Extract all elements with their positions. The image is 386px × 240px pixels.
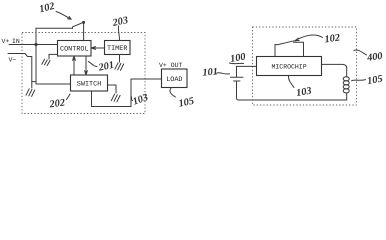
- battery short plate: [234, 80, 241, 82]
- battery bottom stem and bottom rail: [237, 82, 347, 100]
- svg-text:TIMER: TIMER: [107, 45, 127, 53]
- dashed enclosure left figure: [22, 33, 145, 114]
- op block CONTROL U-CTRL: [58, 41, 92, 57]
- svg-text:V−: V−: [9, 57, 17, 64]
- wire CONTROL-SWITCH left (arrow up): [73, 56, 75, 75]
- wire MICROCHIP right to coil: [322, 64, 347, 77]
- leader 203 to TIMER: [118, 26, 119, 41]
- svg-text:102: 102: [324, 32, 341, 45]
- wire V-: [8, 54, 36, 82]
- svg-text:101: 101: [202, 66, 218, 78]
- switch block SWITCH: [71, 75, 108, 91]
- svg-text:400: 400: [366, 51, 384, 64]
- svg-text:LOAD: LOAD: [166, 76, 182, 84]
- wire riser to switch 102: [36, 28, 73, 44]
- leader 202: [67, 94, 71, 100]
- svg-text:V+: V+: [2, 38, 10, 45]
- svg-text:202: 202: [48, 97, 66, 110]
- switch 102 contact dot: [82, 21, 85, 24]
- label 103 right: [288, 76, 294, 88]
- battery 100/101 long plate: [231, 76, 244, 78]
- label 201: [88, 62, 97, 67]
- svg-text:CONTROL: CONTROL: [60, 46, 89, 54]
- label 105 right: [352, 80, 366, 81]
- svg-text:MICROCHIP: MICROCHIP: [272, 64, 307, 71]
- switch 102 blade: [275, 41, 294, 45]
- microchip block MICROCHIP: [257, 57, 322, 76]
- switch 102 on chip: left post: [274, 44, 276, 56]
- svg-text:SWITCH: SWITCH: [77, 80, 101, 88]
- wire TIMER to CONTROL arrow: [92, 47, 105, 49]
- op block TIMER: [105, 41, 131, 55]
- leader arrow 102: [56, 12, 71, 20]
- wire switch to CONTROL top: [83, 23, 85, 41]
- svg-text:V+ OUT: V+ OUT: [159, 62, 183, 69]
- wire SWITCH output to LOAD: [92, 79, 162, 107]
- ground right of SWITCH: [111, 94, 120, 102]
- leader arrow 102 right: [296, 35, 323, 40]
- ground left of CONTROL: [49, 54, 58, 59]
- node junction dot V+: [34, 43, 37, 46]
- wire V+ down to SWITCH: [36, 45, 71, 85]
- label 400: [354, 50, 367, 55]
- label 105 left: [170, 88, 176, 97]
- ground below TIMER: [119, 55, 121, 63]
- wire CONTROL-SWITCH right (arrow down): [85, 56, 87, 75]
- wire V+ IN to CONTROL: [9, 44, 58, 46]
- label 103 left: [131, 96, 133, 101]
- wire SWITCH right to ground: [108, 85, 117, 93]
- dashed enclosure right figure: [253, 27, 357, 105]
- switch 102 blade: [73, 23, 84, 29]
- switch 102 right post and contact: [294, 42, 304, 56]
- coil antenna 105: [346, 93, 348, 100]
- load block LOAD: [162, 69, 188, 88]
- wire MICROCHIP left to battery: [237, 66, 257, 77]
- ground (lower-left): [31, 82, 33, 88]
